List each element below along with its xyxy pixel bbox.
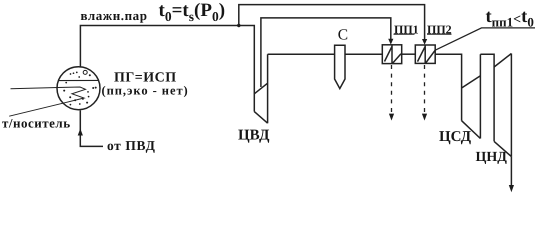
wire: fresh steam branch to PP2 — [239, 5, 425, 41]
arrowhead into PP2 — [422, 39, 427, 45]
svg-text:от ПВД: от ПВД — [107, 138, 156, 153]
wire: extraction line to PP1 — [261, 18, 391, 87]
svg-text:tпп1<t0: tпп1<t0 — [486, 7, 534, 30]
wire: CND exhaust to condenser — [510, 157, 512, 186]
svg-text:t0=ts(P0): t0=ts(P0) — [159, 0, 226, 24]
pointer line from PP2 to t_pp label — [435, 28, 535, 50]
water level line — [58, 79, 99, 81]
arrowhead condenser down — [509, 185, 514, 192]
wire: PP2 to CSD inlet — [435, 54, 461, 121]
svg-text:т/носитель: т/носитель — [2, 116, 71, 131]
steam bubbles dots in SG — [63, 70, 97, 105]
heat carrier outlet line — [9, 103, 64, 116]
junction node dot — [237, 24, 240, 27]
svg-text:(пп,эко - нет): (пп,эко - нет) — [102, 84, 189, 98]
arrowhead drain PP1 — [389, 114, 394, 121]
drain dashed line PP1 — [391, 65, 393, 112]
reheater PP2 box — [415, 45, 435, 63]
wire: PP1 to PP2 — [402, 53, 416, 55]
heat carrier inlet line — [11, 88, 59, 89]
wire: separator to PP1 — [345, 53, 382, 55]
arrowhead feedwater up — [78, 129, 83, 136]
turbine CND body — [494, 54, 511, 157]
wire: crossover CSD to CND — [480, 54, 494, 141]
reheater PP1 coil — [385, 45, 402, 64]
arrowhead drain PP2 — [422, 114, 427, 121]
wire: main steam line SG top to CVD inlet — [80, 26, 254, 112]
arrowhead into PP1 — [388, 39, 393, 45]
svg-text:ЦНД: ЦНД — [476, 150, 508, 165]
turbine CVD body — [254, 54, 267, 123]
wire: CVD exhaust to separator — [268, 53, 335, 55]
reheater PP1 box — [382, 45, 401, 64]
turbine CSD body — [462, 54, 481, 138]
wire: feedwater from PVD — [80, 110, 103, 146]
heating coil zigzag — [58, 87, 86, 103]
svg-text:влажн.пар: влажн.пар — [81, 8, 148, 23]
steam generator PG circle — [57, 67, 100, 110]
reheater PP2 coil — [418, 45, 436, 63]
svg-text:ЦВД: ЦВД — [238, 128, 270, 144]
drain dashed line PP2 — [424, 65, 426, 112]
svg-text:ПП2: ПП2 — [427, 22, 452, 36]
separator C body — [335, 45, 345, 88]
svg-text:ЦСД: ЦСД — [439, 129, 472, 145]
underline PP1 label — [394, 33, 415, 35]
underline PP2 label — [427, 33, 452, 35]
svg-text:С: С — [338, 27, 348, 44]
svg-text:ПП1: ПП1 — [394, 22, 419, 36]
